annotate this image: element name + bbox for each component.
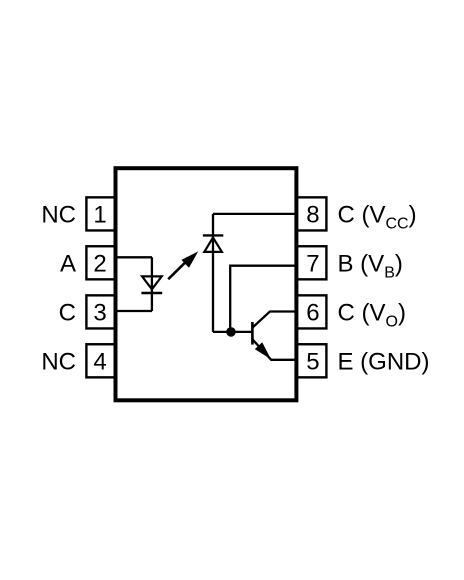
svg-text:1: 1 <box>93 202 106 229</box>
transistor Q1 collector <box>252 312 298 328</box>
pin 2 box <box>86 246 116 279</box>
pin 7 box <box>296 246 326 279</box>
svg-text:A: A <box>60 250 76 277</box>
wire photodiode vertical <box>212 214 214 332</box>
wire pin8 to photodiode cathode <box>213 213 298 215</box>
svg-text:E (GND): E (GND) <box>338 348 430 375</box>
IC body U1 <box>116 168 297 400</box>
svg-text:3: 3 <box>93 300 106 327</box>
pin 3 box <box>86 295 116 328</box>
transistor Q1 base bar <box>251 322 254 345</box>
svg-text:C: C <box>59 300 76 327</box>
svg-text:NC: NC <box>41 202 76 229</box>
wire LED vertical <box>151 257 153 311</box>
svg-text:2: 2 <box>93 250 106 277</box>
pin 1 box <box>86 197 116 230</box>
wire base <box>213 331 251 333</box>
photodiode D2 cathode bar <box>203 234 223 236</box>
svg-text:5: 5 <box>306 348 319 375</box>
pin 8 box <box>296 197 326 230</box>
pin 4 box <box>86 344 116 377</box>
svg-text:NC: NC <box>41 348 76 375</box>
svg-text:6: 6 <box>306 300 319 327</box>
LED D1 cathode bar <box>141 292 162 294</box>
svg-text:4: 4 <box>93 348 106 375</box>
wire pin7 to base <box>230 266 298 332</box>
svg-text:7: 7 <box>306 250 319 277</box>
photodiode D2 triangle <box>204 238 222 252</box>
transistor Q1 emitter <box>252 339 298 360</box>
pin 5 box <box>296 344 326 377</box>
pin 6 box <box>296 295 326 328</box>
wire pin3 to LED cathode <box>114 310 152 312</box>
light emission arrow <box>168 261 186 279</box>
svg-text:8: 8 <box>306 202 319 229</box>
wire pin2 to LED anode <box>114 256 152 258</box>
LED D1 triangle <box>142 276 162 289</box>
junction dot <box>226 327 236 337</box>
transistor Q1 emitter arrow <box>255 342 271 359</box>
